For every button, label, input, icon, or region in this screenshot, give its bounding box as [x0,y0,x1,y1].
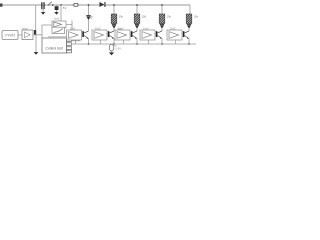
wire top supply rail [3,4,190,6]
connector pin P1 [67,39,72,42]
transistor Q3 [156,31,162,39]
box PWM source [2,31,18,40]
wire LED D3 to Q1 [113,29,115,31]
node rail ch0 [88,4,90,6]
resistor R2 [134,14,140,24]
wire LED D4 to Q2 [136,29,138,31]
wire Q1 emitter [113,38,115,44]
svg-text:Drv4: Drv4 [143,27,149,31]
box driver A0 [67,30,82,40]
terminal J1 input [0,4,3,7]
wire rail drop ch3 [161,5,163,14]
box timer module U4 [48,37,70,40]
box driver A4 [167,30,182,40]
LED D2 [86,15,92,20]
wire stub A1 [100,40,102,44]
svg-text:Amp: Amp [54,17,60,21]
connector pin P3 [67,47,72,50]
transistor Q0 [82,31,88,39]
svg-text:Drv1: Drv1 [70,27,76,31]
connector pin P4 [67,50,72,53]
wire Q2 emitter [136,38,138,44]
ground left [34,52,39,55]
node ch2 ground bus [136,43,138,45]
box driver A3 [140,30,155,40]
diode D1 [100,2,106,7]
wire C1 to ground [42,9,44,12]
buffer U1 [22,30,33,40]
transistor Q4 [183,31,189,39]
ground under C1 [41,12,45,15]
wire stub A2 [123,40,125,44]
svg-text:10k: 10k [142,15,147,19]
wire rail drop ch1 [113,5,115,14]
svg-text:10k: 10k [119,15,124,19]
wire Q3 emitter [161,38,163,44]
LED D6 [187,24,191,29]
svg-text:PWM: PWM [5,33,15,38]
resistor R3 [159,14,165,24]
wire F2 to ground [111,51,113,52]
wire ground return bus [72,43,197,45]
box driver A2 [115,30,130,40]
wire rail drop ch4 [189,5,190,14]
op-amp U2 comparator box [52,21,66,28]
connector pin P2 [67,43,72,46]
LED D5 [160,24,164,29]
node rail-S1 [52,4,54,6]
switch S1 [48,2,52,6]
svg-text:Drv3: Drv3 [118,27,124,31]
svg-text:Input: Input [22,26,28,30]
capacitor C1 [41,2,45,9]
wire Q0 emitter [88,38,90,44]
wire LED D6 to Q4 [188,29,190,31]
box driver A1 [92,30,107,40]
svg-text:10k: 10k [194,15,199,19]
wire B1 to ground [56,5,58,12]
node ch3 ground bus [161,43,163,45]
wire rail drop to PWM buffer [35,5,37,30]
wire rail drop ch2 [136,5,138,14]
svg-text:Control Unit: Control Unit [45,46,62,50]
node rail ch3 [161,4,163,6]
LED D3 [112,24,116,29]
wire PWM to buffer U1 [18,34,22,36]
svg-text:Drv2: Drv2 [95,27,101,31]
fuse F1 [74,3,78,6]
wire C2 to ground [35,35,37,52]
node ch1 ground bus [113,43,115,45]
wire LED D2 to Q0 [88,20,90,31]
transistor Q1 [108,31,114,39]
node ch4 ground bus [188,43,190,45]
ground under B1 [54,12,58,15]
wire buffer output net [33,25,52,38]
connector pin P0 [69,31,74,33]
transistor Q2 [131,31,137,39]
wire driver signal bus [72,40,81,42]
wire stub A4 [175,40,177,44]
wire stub A3 [148,40,150,44]
node rail osc feed [60,4,62,6]
node ch0 ground bus [88,43,90,45]
node rail ch2 [136,4,138,6]
svg-text:10k: 10k [167,15,172,19]
svg-text:5V: 5V [63,6,67,10]
wire U2 output [66,21,72,32]
box Control Unit [42,38,67,53]
box ramp generator U3 [52,27,65,33]
node rail ch1 [113,4,115,6]
svg-text:0.5A: 0.5A [116,47,122,51]
ground main [109,52,114,55]
fuse F2 sense element [109,44,116,51]
capacitor C2 block [34,30,36,35]
resistor R4 [186,14,192,24]
wire rail to oscillator box [60,5,62,21]
wire rail drop ch0 [88,5,90,15]
resistor R1 [111,14,117,24]
wire stub A0 [75,40,77,44]
svg-text:Drv5: Drv5 [170,27,176,31]
wire Q4 emitter [188,38,190,44]
sensor module B1 [55,6,59,10]
LED D4 [135,24,139,29]
wire LED D5 to Q3 [161,29,163,31]
